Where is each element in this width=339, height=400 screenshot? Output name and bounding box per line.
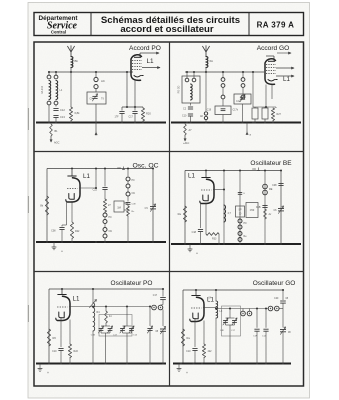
svg-text:L1: L1 [188, 173, 195, 180]
svg-text:L1: L1 [83, 173, 90, 180]
wire column RE [264, 171, 266, 245]
coupling contacts P0b [241, 311, 246, 316]
wire AC stub [95, 72, 97, 77]
capacitor C10 [58, 348, 63, 350]
wire: left drop [182, 290, 184, 363]
antenna [205, 52, 207, 56]
grid lead [213, 189, 224, 191]
wire lower connector [253, 106, 276, 108]
antenna coil Bb [71, 57, 73, 68]
svg-text:R6: R6 [53, 336, 57, 340]
wire column 2 [239, 171, 241, 245]
box SP 30 [236, 206, 245, 217]
ground bus [173, 363, 291, 365]
tuning cap box C9 [87, 92, 106, 104]
anode lead + arrow [139, 53, 141, 57]
svg-text:Ra: Ra [187, 336, 191, 340]
below-bus tap +A1C [184, 135, 186, 141]
coupling cap AF [204, 112, 207, 115]
below-bus ground + [53, 242, 55, 247]
svg-text:+: + [61, 250, 63, 254]
variable capacitor CVg [282, 309, 284, 328]
coil R42 [224, 205, 226, 222]
resistor 8k [45, 196, 48, 215]
capacitor C18 [119, 111, 124, 113]
wire grid branch [252, 72, 254, 107]
grid lead [203, 307, 216, 309]
frame row divider 1 [34, 151, 304, 153]
trimmer box [99, 315, 132, 337]
svg-text:C17: C17 [129, 116, 134, 119]
capacitor C17 top [162, 289, 164, 297]
contacts RE [263, 184, 268, 189]
svg-text:RA 379 A: RA 379 A [257, 21, 295, 30]
antenna [70, 52, 72, 56]
svg-text:C4F: C4F [220, 330, 225, 332]
svg-text:6,8k: 6,8k [75, 111, 81, 115]
tube U3 [67, 175, 76, 177]
wire cathode drop [66, 201, 68, 225]
ground bus [36, 363, 166, 365]
wire box to bus [95, 104, 97, 123]
resistor R6 [47, 329, 50, 346]
ground stub [95, 123, 97, 133]
resistor 6,8k [69, 107, 72, 121]
wire right branch [280, 171, 282, 245]
antenna coil L4 [49, 81, 51, 100]
wire: top rail [48, 71, 133, 73]
grid lead [69, 306, 93, 308]
resistor box R25 [252, 108, 258, 119]
terminals AC [94, 77, 98, 81]
grid box 1,5k [246, 203, 258, 218]
svg-text:L1: L1 [283, 76, 290, 83]
wire cathode drop [60, 317, 62, 347]
svg-text:C13: C13 [60, 115, 65, 119]
header box [34, 13, 304, 36]
resistor R22b [203, 321, 205, 345]
switch contacts S1 [221, 78, 225, 82]
resistor Ra [183, 206, 186, 222]
contacts P0 Re [238, 219, 242, 223]
below-bus tap AGC [50, 136, 52, 142]
below-bus ground + [39, 364, 41, 369]
capacitor C14b [265, 309, 267, 328]
svg-text:Oscillateur GO: Oscillateur GO [253, 280, 296, 287]
svg-text:C50: C50 [250, 209, 255, 212]
wire cathode leads [200, 203, 202, 229]
svg-text:1M: 1M [117, 206, 121, 210]
svg-text:R20: R20 [146, 112, 151, 116]
svg-text:Oscillateur BE: Oscillateur BE [250, 160, 292, 167]
resistor R22 [71, 201, 73, 222]
svg-text:C10: C10 [182, 115, 187, 118]
oscillator coil L8 [216, 301, 218, 318]
wire resistor drop [70, 72, 72, 107]
trimmer C17 pair [126, 307, 128, 327]
below-bus tap B1 [50, 124, 53, 136]
grid arrows [276, 67, 294, 69]
svg-text:accord et oscillateur: accord et oscillateur [120, 24, 214, 35]
capacitor C2 [188, 106, 193, 108]
svg-text:C19: C19 [207, 110, 212, 112]
svg-text:RE: RE [269, 188, 273, 191]
svg-text:6A: 6A [210, 59, 214, 63]
resistor Av [264, 209, 267, 219]
tuning cap box C4a [234, 94, 251, 104]
wire: transformer bottoms [48, 105, 50, 123]
svg-text:C10: C10 [186, 350, 191, 353]
below-bus ground + [189, 244, 191, 249]
wire block stubs [186, 72, 188, 78]
wire: left drop [46, 169, 48, 243]
resistor R4 [105, 307, 107, 312]
tube U4 [201, 177, 210, 179]
svg-text:Ra: Ra [178, 212, 182, 216]
svg-text:+A1C: +A1C [183, 142, 190, 145]
wire: transformer top stubs [48, 72, 50, 75]
svg-text:C4F: C4F [274, 298, 279, 300]
ground stub a [246, 123, 248, 133]
svg-text:PO GO: PO GO [179, 86, 181, 94]
capacitor C08 [62, 224, 67, 226]
capacitor C17 top right [282, 290, 284, 300]
svg-text:Bb: Bb [75, 59, 79, 63]
grid rail [93, 306, 150, 308]
svg-text:C1B: C1B [91, 335, 96, 337]
wire cathode leads [134, 80, 136, 107]
antenna coil 6A [206, 57, 208, 68]
grid lead [79, 187, 96, 189]
resistor box R26 [262, 108, 268, 119]
svg-text:Accord PO: Accord PO [129, 45, 161, 52]
coupling contacts right [268, 306, 273, 311]
resistor R22 [69, 320, 71, 345]
svg-text:C18: C18 [192, 231, 197, 234]
trimmer C4F pair [229, 309, 231, 319]
wire right edge [152, 169, 154, 243]
svg-text:17F: 17F [115, 116, 120, 119]
variable capacitor C6 [278, 208, 284, 210]
oscillator coil 6g [93, 303, 95, 331]
title arrow [277, 52, 291, 54]
capacitor C17 [132, 111, 137, 113]
wire lower connector [122, 106, 143, 108]
svg-text:Central: Central [51, 29, 66, 34]
wire cathode drop [194, 318, 196, 347]
resistor R27 [271, 108, 274, 121]
resistor R33 [205, 203, 207, 235]
svg-text:L1: L1 [73, 296, 80, 303]
padder box C4 [215, 106, 231, 115]
antenna transformer terminals [47, 75, 51, 79]
capacitor C22 [96, 187, 105, 189]
variable capacitor CV [150, 206, 156, 208]
ground bus [36, 122, 166, 124]
svg-text:+: + [186, 371, 188, 375]
wire S2 to box [242, 93, 244, 95]
svg-text:+: + [47, 371, 49, 375]
svg-text:R22: R22 [74, 350, 79, 353]
ground bus [36, 241, 166, 243]
wire: top rail [47, 168, 153, 170]
wire mid column [223, 171, 225, 245]
wire: top rail [185, 170, 281, 172]
wire: left drop [48, 289, 50, 363]
wire mid column [95, 169, 97, 189]
svg-text:OC: OC [109, 230, 113, 233]
capacitor C10 [188, 113, 193, 115]
svg-text:AGC: AGC [54, 142, 60, 145]
svg-text:CV: CV [145, 207, 149, 210]
anode lead [273, 56, 275, 61]
capacitor C08 [278, 183, 283, 185]
capacitor C08b [127, 200, 129, 202]
wire: top rail [183, 289, 284, 291]
svg-text:C12: C12 [60, 108, 65, 112]
wire: top rail [49, 288, 163, 290]
svg-text:C4a: C4a [236, 101, 241, 103]
main frame [34, 42, 304, 386]
svg-text:C17: C17 [153, 295, 158, 297]
ground bus [171, 243, 301, 245]
wire right column [127, 169, 129, 177]
below-bus tap A7 [184, 124, 187, 135]
svg-text:C1B: C1B [256, 206, 261, 209]
grid arrow [142, 67, 160, 69]
wire: left drop [184, 171, 186, 245]
svg-text:AC: AC [101, 79, 105, 83]
contacts P0 OC [103, 213, 107, 217]
resistor Ra6 [181, 329, 184, 346]
frame row divider 2 [34, 271, 304, 273]
capacitor C12 [53, 108, 58, 110]
svg-text:C08: C08 [272, 184, 277, 187]
trimmer C1B [101, 325, 110, 327]
page edge streaks [27, 108, 29, 130]
wire cap to bus [55, 118, 57, 123]
resistor Rv [127, 204, 129, 206]
svg-text:C22: C22 [93, 189, 98, 192]
grid resistor box 1M [114, 201, 124, 212]
resistor R20 [141, 108, 144, 121]
svg-text:C10: C10 [52, 350, 57, 353]
variable capacitor C08 [162, 310, 164, 327]
svg-text:C08: C08 [51, 230, 56, 233]
svg-text:SP: SP [238, 210, 242, 212]
contacts P0b OCb [126, 177, 130, 181]
svg-text:Oscillateur PO: Oscillateur PO [111, 280, 153, 287]
capacitor C10b [192, 348, 197, 350]
svg-text:OC: OC [132, 192, 136, 195]
frame column divider [169, 42, 171, 386]
capacitor D [238, 192, 242, 194]
ground bus [171, 122, 301, 124]
coil block [182, 76, 200, 103]
trimmer C14 [149, 307, 151, 327]
trimmer box [222, 306, 241, 336]
tube U1 [131, 55, 142, 81]
svg-text:AF: AF [200, 115, 204, 118]
svg-text:C17b: C17b [233, 110, 239, 112]
grid rail [216, 308, 268, 310]
svg-text:R22: R22 [75, 230, 80, 233]
antenna coil L5 [56, 81, 58, 100]
resistor 27 [104, 190, 106, 200]
switch contacts S2 [241, 78, 245, 82]
coupling contacts P0 [152, 305, 157, 310]
svg-text:RA 243: RA 243 [41, 85, 44, 94]
svg-text:R33: R33 [212, 238, 217, 241]
wire mid drop [205, 72, 207, 111]
tube U6 [191, 295, 200, 297]
svg-text:+: + [196, 252, 198, 256]
capacitor C1F [256, 309, 258, 328]
wire antenna drop [70, 67, 72, 72]
wire grid branch [126, 72, 128, 107]
wire: top rail [185, 71, 264, 73]
tube U2 [265, 59, 276, 85]
below-bus ground + [178, 364, 180, 369]
svg-text:OD: OD [117, 166, 121, 170]
svg-text:L1: L1 [147, 58, 155, 65]
svg-text:R27: R27 [277, 113, 282, 116]
capacitor C18 [198, 229, 203, 231]
svg-text:422: 422 [208, 350, 213, 353]
tube U5 [57, 294, 66, 296]
capacitor C1B [262, 205, 267, 207]
capacitor C13 [53, 115, 58, 117]
svg-text:Accord GO: Accord GO [257, 45, 290, 52]
wire cathode leads [265, 85, 267, 108]
